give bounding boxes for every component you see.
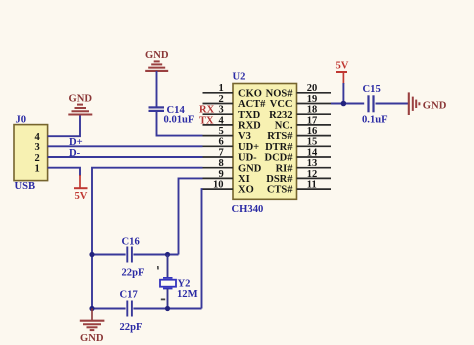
svg-text:RX: RX: [199, 105, 215, 116]
capacitor C15: [362, 84, 388, 125]
connector J0 body: [14, 114, 48, 192]
capacitor C16: [122, 236, 145, 278]
svg-text:17: 17: [307, 115, 318, 126]
svg-text:GND: GND: [80, 333, 104, 344]
wire crystal bottom lead: [167, 289, 169, 309]
U2 pin 16 RTS#: [267, 126, 331, 142]
svg-text:16: 16: [307, 126, 318, 137]
wire USB pin1 to 5V tap: [48, 168, 80, 176]
svg-text:5V: 5V: [336, 61, 349, 72]
U2 pin 14 DCD#: [265, 147, 332, 163]
U2 pin 18 R232: [269, 105, 331, 121]
svg-text:6: 6: [219, 137, 224, 148]
U2 pin 8 GND: [203, 158, 262, 174]
svg-text:12: 12: [307, 169, 318, 180]
svg-text:V3: V3: [238, 131, 251, 142]
svg-text:XO: XO: [238, 185, 254, 196]
U2 pin 10 XO: [203, 180, 254, 196]
svg-text:DTR#: DTR#: [265, 142, 293, 153]
wire C17 net: [92, 308, 202, 310]
svg-text:GND: GND: [145, 50, 169, 61]
wire crystal top lead: [167, 255, 169, 278]
svg-text:C16: C16: [122, 236, 140, 247]
svg-text:2: 2: [35, 153, 40, 164]
wire U2 pin8 GND net to rail: [92, 168, 203, 309]
svg-text:ACT#: ACT#: [238, 99, 266, 110]
svg-text:3: 3: [35, 142, 40, 153]
svg-text:CH340: CH340: [232, 204, 264, 215]
node D+ label: [69, 137, 83, 148]
U2 pin 5 V3: [203, 126, 251, 142]
U2 pin 9 XI: [203, 169, 250, 185]
wire VCC net (pin19 to C15): [331, 103, 364, 105]
svg-text:VCC: VCC: [270, 99, 293, 110]
svg-text:1: 1: [219, 83, 224, 94]
wire U2 pin9 XI down-left: [179, 178, 203, 254]
svg-text:5V: 5V: [75, 191, 88, 202]
wire D+ (USB pin3 to U2 pin6): [48, 145, 203, 147]
crystal Y2: [158, 266, 198, 300]
svg-text:9: 9: [219, 169, 224, 180]
U2 pin 15 DTR#: [265, 137, 331, 153]
svg-text:22pF: 22pF: [120, 322, 143, 333]
svg-text:12M: 12M: [177, 289, 198, 300]
svg-text:CKO: CKO: [238, 88, 262, 99]
ground GND (bottom): [80, 309, 105, 345]
svg-text:UD-: UD-: [238, 153, 257, 164]
wire U2 pin10 XO down: [202, 189, 203, 308]
svg-text:GND: GND: [238, 163, 262, 174]
svg-text:15: 15: [307, 137, 318, 148]
U2 pin 19 VCC: [270, 94, 331, 110]
U2 pin 6 UD+: [203, 137, 260, 153]
power 5V (below USB): [74, 175, 88, 202]
svg-text:20: 20: [307, 83, 318, 94]
svg-text:8: 8: [219, 158, 224, 169]
svg-text:GND: GND: [423, 100, 447, 111]
svg-text:0.1uF: 0.1uF: [362, 114, 388, 125]
U2 pin 4 RXD, node TX: [199, 115, 261, 131]
capacitor C14: [149, 105, 195, 126]
wire 5V stub: [342, 83, 344, 104]
svg-text:UD+: UD+: [238, 142, 259, 153]
U2 pin 1 CKO: [203, 83, 262, 99]
node junction crystal/C16: [165, 252, 170, 257]
svg-text:RTS#: RTS#: [267, 131, 293, 142]
svg-text:GND: GND: [69, 93, 93, 104]
ground GND (above C14): [145, 50, 169, 71]
svg-text:RI#: RI#: [276, 163, 294, 174]
svg-text:5: 5: [219, 126, 224, 137]
svg-text:2: 2: [219, 94, 224, 105]
svg-text:1: 1: [35, 164, 40, 175]
svg-text:0.01uF: 0.01uF: [164, 115, 195, 126]
svg-text:TXD: TXD: [238, 110, 261, 121]
svg-text:U2: U2: [233, 72, 246, 83]
op chip U2 body: [232, 72, 297, 216]
U2 pin 2 ACT#: [203, 94, 267, 110]
node junction rail/C16: [89, 252, 94, 257]
U2 pin 20 NOS#: [266, 83, 331, 99]
svg-text:4: 4: [219, 115, 225, 126]
svg-text:RXD: RXD: [238, 121, 261, 132]
wire C15 to GND: [376, 103, 409, 105]
U2 pin 11 CTS#: [267, 180, 331, 196]
svg-text:3: 3: [219, 105, 224, 116]
U2 pin 7 UD-: [203, 147, 258, 163]
wire USB pin4 to GND tap: [48, 114, 80, 136]
svg-text:19: 19: [307, 94, 318, 105]
U2 pin 3 TXD, node RX: [199, 105, 261, 121]
svg-text:TX: TX: [199, 115, 214, 126]
ground GND (above USB pin4): [68, 93, 92, 114]
svg-text:NOS#: NOS#: [266, 88, 294, 99]
svg-text:18: 18: [307, 105, 318, 116]
wire C16 net: [92, 254, 179, 256]
U2 pin 12 DSR#: [266, 169, 331, 185]
U2 pin 17 NC.: [275, 115, 331, 131]
node D- label: [69, 148, 81, 159]
node junction rail/C17: [89, 306, 94, 311]
svg-text:11: 11: [307, 180, 317, 191]
node junction crystal/C17: [165, 306, 170, 311]
svg-text:USB: USB: [15, 181, 36, 192]
svg-text:22pF: 22pF: [122, 267, 145, 278]
power 5V (right): [336, 61, 349, 84]
svg-text:10: 10: [213, 180, 224, 191]
svg-text:7: 7: [219, 147, 224, 158]
capacitor C17: [120, 289, 143, 332]
svg-text:13: 13: [307, 158, 318, 169]
svg-text:14: 14: [307, 147, 318, 158]
U2 pin 13 RI#: [276, 158, 331, 174]
ground GND (right, sideways): [409, 92, 447, 115]
svg-text:C17: C17: [120, 289, 139, 300]
svg-text:CTS#: CTS#: [267, 185, 293, 196]
svg-text:DCD#: DCD#: [265, 153, 294, 164]
svg-text:XI: XI: [238, 174, 250, 185]
svg-text:NC.: NC.: [275, 121, 293, 132]
node junction 5V/VCC: [341, 101, 347, 107]
wire D- (USB pin2 to U2 pin7): [48, 156, 203, 158]
wire GND to C14: [156, 71, 158, 107]
svg-text:J0: J0: [16, 114, 27, 125]
wire C14 to U2 pin5: [157, 111, 203, 136]
svg-text:DSR#: DSR#: [266, 174, 293, 185]
svg-text:R232: R232: [269, 110, 292, 121]
svg-text:C15: C15: [363, 84, 381, 95]
